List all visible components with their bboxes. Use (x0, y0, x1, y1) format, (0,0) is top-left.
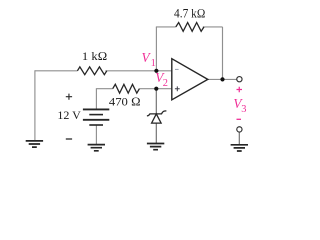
svg-text:1 kΩ: 1 kΩ (82, 49, 108, 63)
op-amp triangle (172, 59, 208, 100)
wire node V2 down to zener cathode (155, 89, 157, 114)
resistor 4.7 kOhm zigzag (176, 23, 204, 32)
wire 1 kOhm to op-amp inverting input (node V1) (105, 70, 171, 72)
wire feedback top left segment (156, 26, 176, 28)
svg-text:3: 3 (241, 104, 246, 115)
svg-text:1: 1 (151, 58, 156, 69)
wire zener anode down to ground (155, 123, 157, 144)
zener diode triangle (anode) (152, 114, 162, 123)
wire left horizontal to 1 kOhm resistor (35, 70, 78, 72)
wire op-amp output to terminal (208, 78, 237, 80)
resistor 470 Ohm zigzag (113, 84, 140, 93)
wire battery top horizontal to 470 Ohm (96, 88, 113, 90)
zener diode cathode bar with bent ends (147, 111, 167, 116)
wire feedback top right segment (203, 26, 223, 28)
wire battery bottom down to ground (95, 125, 97, 145)
wire feedback left vertical from node V1 up (155, 27, 157, 71)
ground symbol left (26, 141, 43, 147)
wire left vertical down to ground (34, 70, 36, 140)
output terminal upper (open circle) (237, 77, 242, 82)
node V2 junction dot (154, 87, 158, 91)
wire 470 Ohm to op-amp noninverting input (node V2) (139, 88, 171, 90)
ground symbol zener (147, 144, 164, 150)
wire battery top vertical (95, 89, 97, 110)
svg-text:12 V: 12 V (57, 108, 81, 122)
battery minus sign (66, 138, 72, 140)
wire feedback right vertical down to output node (222, 27, 224, 80)
wire lower output terminal down to ground (238, 132, 240, 145)
op-amp plus sign (noninverting input) (175, 86, 180, 91)
svg-text:470 Ω: 470 Ω (109, 94, 141, 108)
ground symbol battery (88, 145, 105, 151)
ground symbol output (231, 145, 248, 151)
pink minus sign at output (237, 118, 242, 120)
resistor 1 kOhm zigzag (77, 67, 106, 75)
pink plus sign at output (237, 87, 243, 93)
output terminal lower (open circle) (237, 127, 242, 132)
op-amp minus sign (inverting input) (175, 68, 179, 70)
battery 12 V plates (83, 108, 109, 110)
node V1 junction dot (154, 69, 158, 73)
output feedback junction dot (220, 77, 224, 81)
battery plus sign (66, 94, 72, 100)
svg-text:4.7 kΩ: 4.7 kΩ (174, 6, 206, 20)
svg-text:2: 2 (163, 78, 168, 89)
